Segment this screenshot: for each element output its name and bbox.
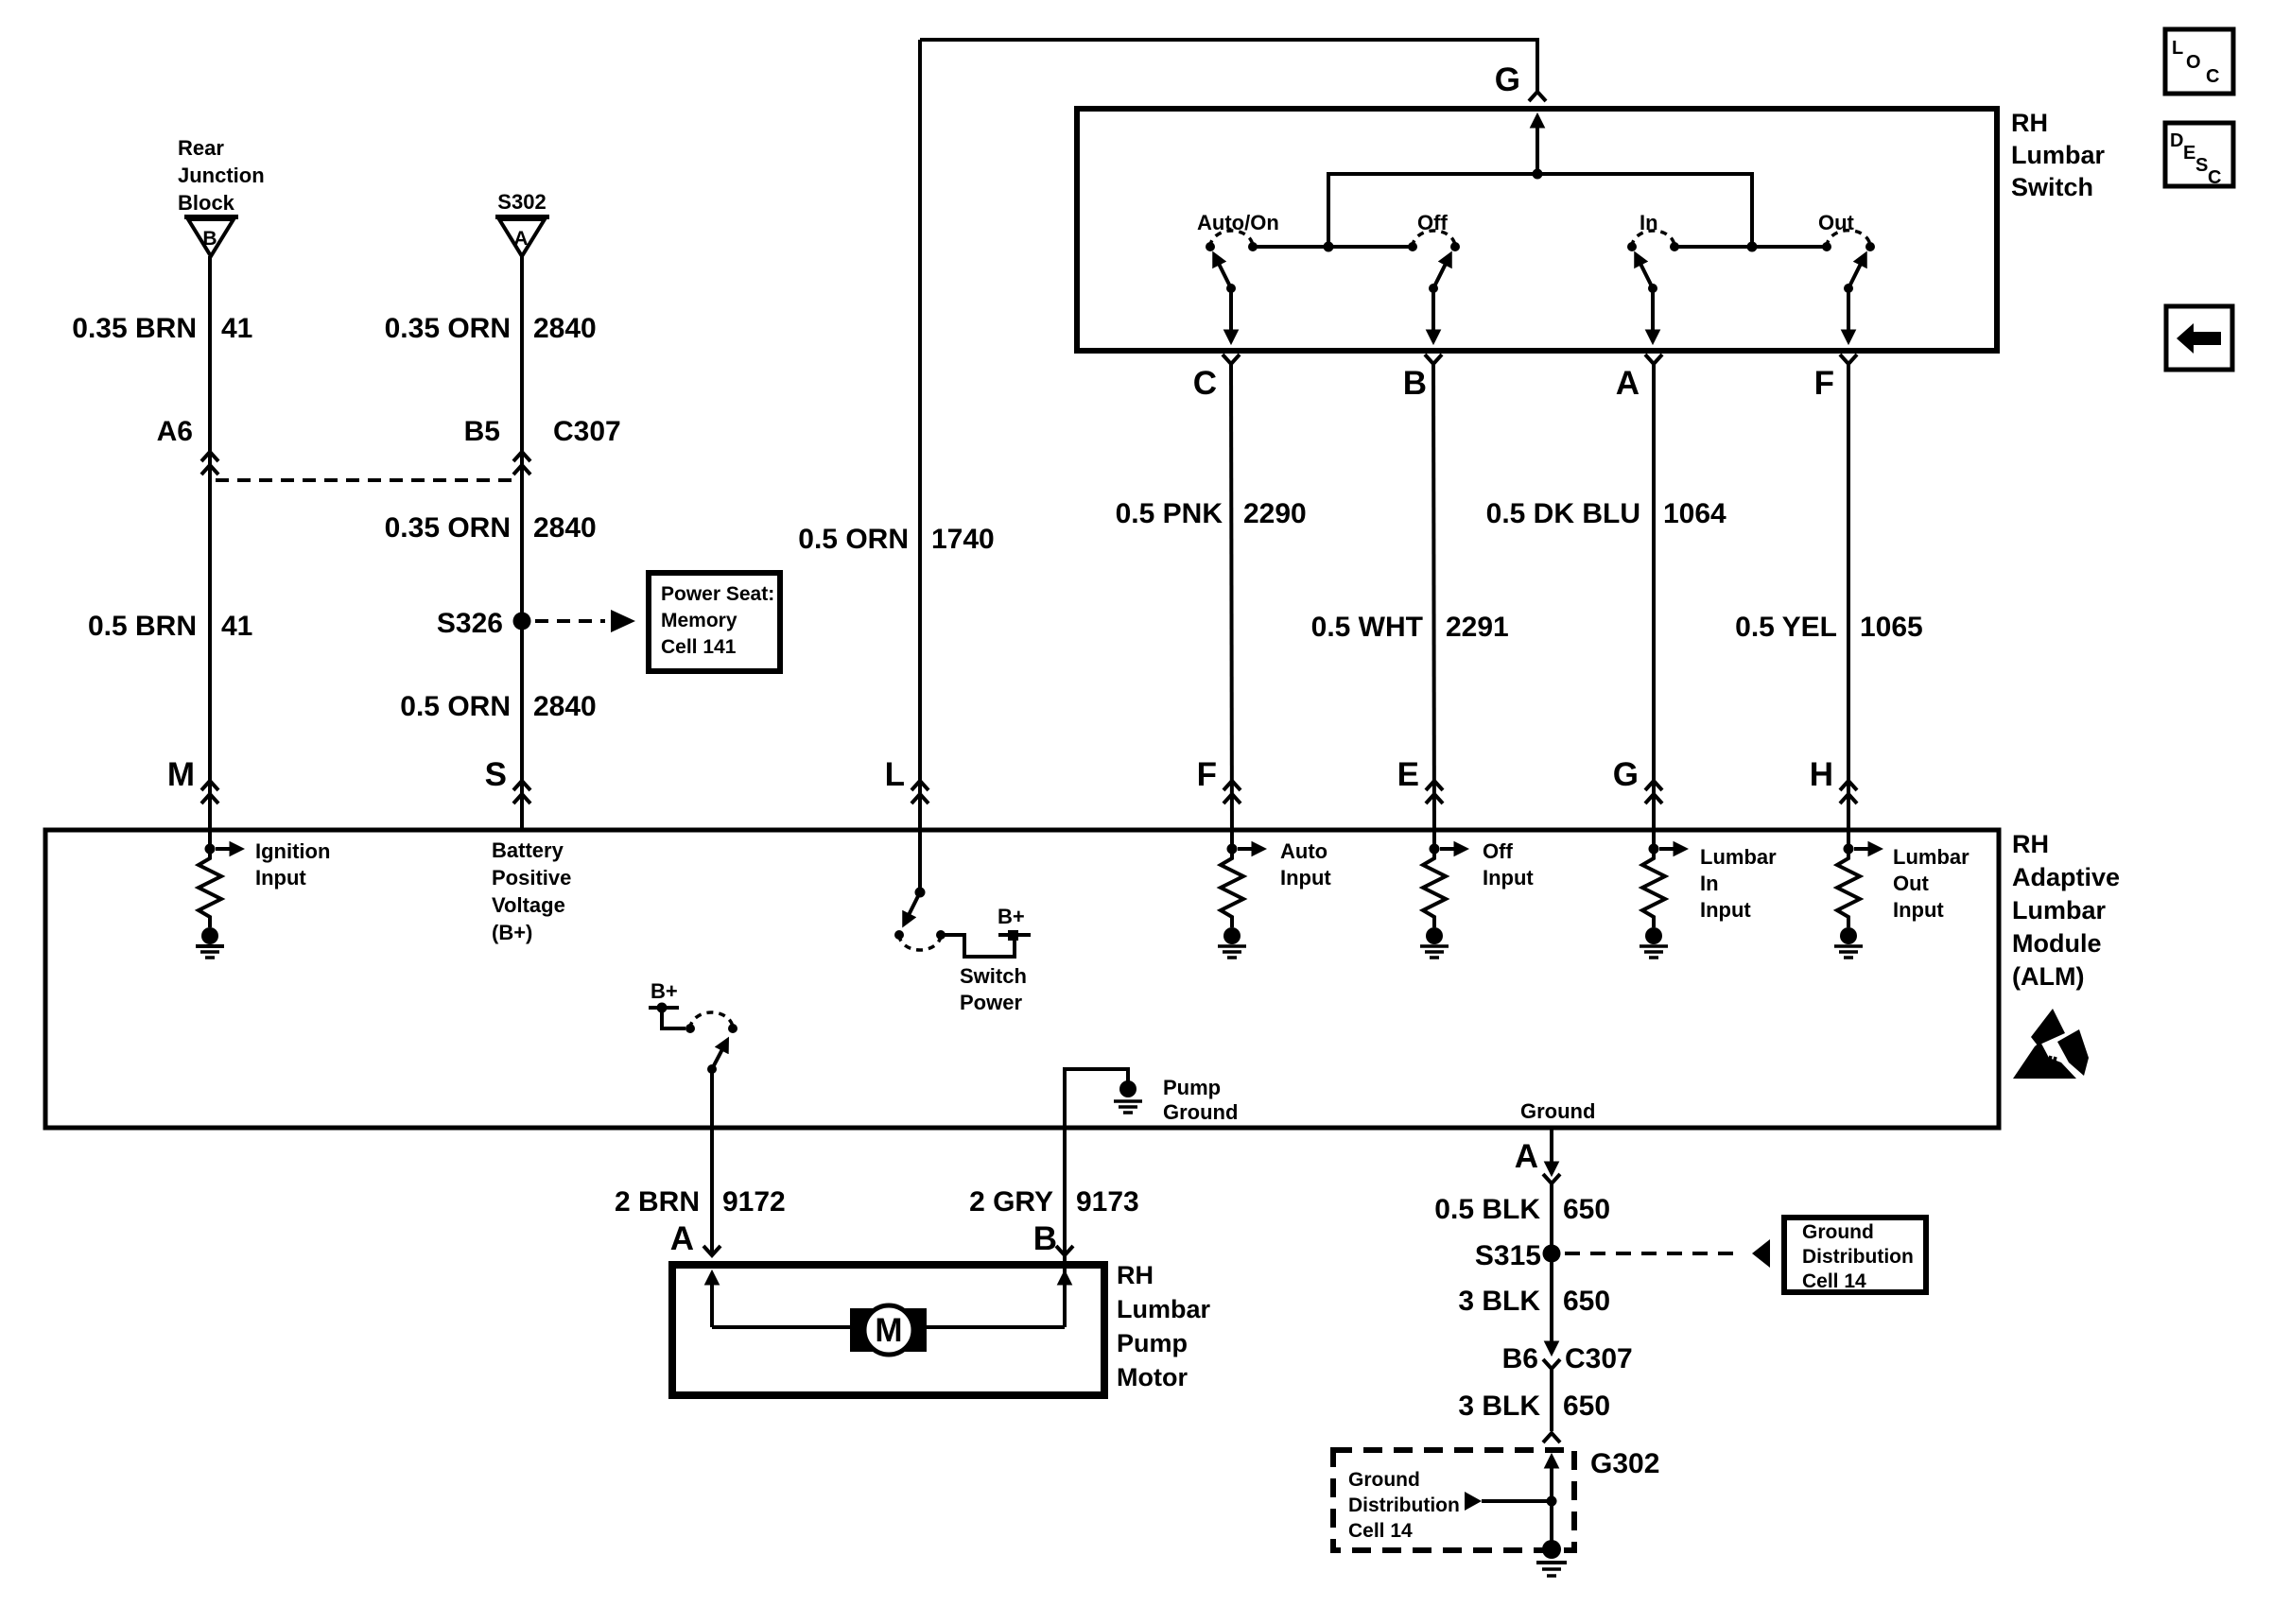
wire pump A entry arrow <box>710 1284 714 1327</box>
svg-text:Pump: Pump <box>1163 1076 1221 1099</box>
wire 0.5 DK BLU 1064 (A to G) <box>1652 362 1656 849</box>
svg-text:0.5 ORN: 0.5 ORN <box>798 524 909 555</box>
svg-text:C: C <box>2206 66 2219 87</box>
svg-text:2840: 2840 <box>533 512 597 544</box>
pin A (pump motor) <box>670 1220 720 1257</box>
svg-text:F: F <box>1814 365 1834 402</box>
node bus junction <box>1533 169 1543 180</box>
svg-text:Ignition: Ignition <box>255 839 330 863</box>
svg-text:S: S <box>2195 155 2208 176</box>
svg-text:Motor: Motor <box>1117 1363 1188 1391</box>
label Pump Ground <box>1163 1076 1238 1124</box>
svg-text:L: L <box>885 756 905 793</box>
svg-text:Voltage: Voltage <box>492 893 565 917</box>
box RH Lumbar Pump Motor <box>672 1265 1104 1395</box>
wire G entry arrow inside switch box <box>1536 127 1539 174</box>
wire B+ to pump relay contact <box>662 1008 685 1028</box>
connector triangle A (S302) <box>495 215 549 256</box>
svg-text:3 BLK: 3 BLK <box>1458 1391 1540 1422</box>
wire dashed S315 to Ground Distribution <box>1565 1239 1770 1268</box>
ground off input <box>1420 927 1449 958</box>
resistor auto input <box>1221 849 1243 927</box>
svg-text:0.5 WHT: 0.5 WHT <box>1311 612 1423 643</box>
svg-text:Lumbar: Lumbar <box>2012 896 2107 924</box>
svg-text:Battery: Battery <box>492 838 564 862</box>
svg-text:M: M <box>167 756 195 793</box>
svg-text:B6: B6 <box>1502 1343 1538 1374</box>
svg-text:Junction: Junction <box>178 164 265 187</box>
svg-text:B: B <box>1033 1220 1057 1257</box>
node lumbar in junction <box>1649 844 1659 855</box>
svg-text:B5: B5 <box>464 416 500 447</box>
resistor off input <box>1423 849 1446 927</box>
svg-text:Ground: Ground <box>1520 1099 1595 1123</box>
svg-text:C: C <box>1193 365 1217 402</box>
svg-text:B: B <box>1403 365 1427 402</box>
svg-text:1064: 1064 <box>1663 498 1726 529</box>
svg-text:Cell 141: Cell 141 <box>661 636 737 658</box>
wire 0.35/0.5 BRN 41 (left vertical) <box>208 256 212 849</box>
node off input junction <box>1430 844 1440 855</box>
svg-text:(ALM): (ALM) <box>2012 962 2084 991</box>
box DESC <box>2165 123 2233 188</box>
wire auto input arrow <box>1238 847 1253 851</box>
svg-text:A: A <box>513 228 528 250</box>
switch Auto/On <box>1197 211 1279 331</box>
pin M (ALM ignition input) <box>167 756 218 803</box>
svg-text:Distribution: Distribution <box>1348 1494 1460 1516</box>
pin A (switch in output) <box>1616 354 1662 402</box>
svg-text:Input: Input <box>1700 898 1751 922</box>
wire top horizontal to G <box>920 40 1537 91</box>
connector triangle B (Rear Junction Block) <box>184 215 238 256</box>
svg-text:F: F <box>1197 756 1217 793</box>
wire lumbar in arrow <box>1659 847 1674 851</box>
pin G (ALM lumbar in input) <box>1613 756 1662 803</box>
svg-text:Block: Block <box>178 191 235 215</box>
svg-text:Adaptive: Adaptive <box>2012 863 2120 891</box>
node auto input junction <box>1227 844 1238 855</box>
wire 3 BLK 650 (to G302) <box>1550 1369 1553 1431</box>
wire 0.5 PNK 2290 (C to F) <box>1231 362 1232 849</box>
power feed B+ (pump relay) <box>649 979 679 1013</box>
wire label 0.5 WHT 2291 <box>1311 612 1509 643</box>
svg-text:650: 650 <box>1563 1391 1610 1422</box>
svg-text:C307: C307 <box>553 416 621 447</box>
resistor ignition input <box>199 849 221 927</box>
svg-text:Out: Out <box>1893 872 1930 895</box>
svg-text:C307: C307 <box>1565 1343 1633 1374</box>
label Off Input <box>1483 839 1534 890</box>
ground auto input <box>1218 927 1246 958</box>
svg-text:Power Seat:: Power Seat: <box>661 583 774 605</box>
pin L (ALM switch power) <box>885 756 928 803</box>
svg-text:B+: B+ <box>651 979 678 1003</box>
svg-text:Ground: Ground <box>1348 1469 1420 1491</box>
svg-text:Auto/On: Auto/On <box>1197 211 1279 234</box>
power feed B+ (switch power) <box>998 905 1031 941</box>
switch power relay contact <box>894 888 946 951</box>
wire 0.35/0.5 ORN 2840 (second vertical) <box>520 256 524 830</box>
connector A6 (in-line chevrons on BRN wire) <box>157 416 218 475</box>
wire label 0.5 PNK 2290 <box>1116 498 1307 529</box>
svg-text:Off: Off <box>1483 839 1513 863</box>
svg-text:G302: G302 <box>1590 1448 1659 1479</box>
svg-text:S326: S326 <box>437 608 503 639</box>
svg-text:Input: Input <box>255 866 306 890</box>
wire label 3 BLK 650 <box>1458 1286 1610 1317</box>
ground lumbar in <box>1640 927 1668 958</box>
ground ignition <box>196 927 224 958</box>
svg-text:A: A <box>1616 365 1640 402</box>
pin S (ALM battery input) <box>485 756 530 803</box>
svg-text:E: E <box>2183 143 2195 164</box>
wire motor loop <box>712 1325 1065 1329</box>
pin B (switch off output) <box>1403 354 1442 402</box>
node lumbar out junction <box>1844 844 1854 855</box>
svg-text:650: 650 <box>1563 1194 1610 1225</box>
wire label 2 GRY 9173 <box>969 1186 1139 1218</box>
svg-text:2291: 2291 <box>1446 612 1509 643</box>
svg-text:0.5 BRN: 0.5 BRN <box>88 611 197 642</box>
wire label 0.35 BRN 41 <box>72 313 252 344</box>
svg-text:E: E <box>1397 756 1419 793</box>
svg-text:S: S <box>485 756 507 793</box>
wire 2 BRN 9172 (pump A) <box>710 1069 714 1255</box>
svg-text:G: G <box>1495 61 1520 98</box>
svg-text:Lumbar: Lumbar <box>2011 141 2106 169</box>
svg-text:Module: Module <box>2012 929 2102 958</box>
wire switch common bus <box>1328 174 1752 247</box>
svg-text:Switch: Switch <box>2011 173 2093 201</box>
wire label 0.5 DK BLU 1064 <box>1486 498 1726 529</box>
wire 0.5 ORN 1740 (L vertical) <box>918 40 922 892</box>
connector B5 C307 (in-line chevrons on ORN wire) <box>464 416 621 475</box>
svg-text:RH: RH <box>1117 1261 1154 1289</box>
node row junction left <box>1324 242 1334 252</box>
wire G302 entry arrow <box>1550 1467 1553 1501</box>
svg-text:(B+): (B+) <box>492 921 532 944</box>
label Switch Power <box>960 964 1027 1014</box>
wire label 0.5 ORN 2840 <box>400 691 596 722</box>
svg-text:A: A <box>1515 1138 1538 1175</box>
connector chevron at G302 <box>1543 1433 1560 1443</box>
svg-text:2 GRY: 2 GRY <box>969 1186 1053 1218</box>
wire off input arrow <box>1440 847 1455 851</box>
wire dashed tie A6-B5 <box>216 478 516 482</box>
pin H (ALM lumbar out input) <box>1810 756 1857 803</box>
label RH Adaptive Lumbar Module (ALM) <box>2012 830 2120 991</box>
svg-text:Cell 14: Cell 14 <box>1802 1270 1866 1292</box>
svg-text:Rear: Rear <box>178 136 224 160</box>
svg-text:Distribution: Distribution <box>1802 1246 1914 1268</box>
wire Auto/On to Off row <box>1253 245 1413 249</box>
svg-text:Input: Input <box>1893 898 1944 922</box>
label Lumbar Out Input <box>1893 845 1969 922</box>
svg-text:0.35 ORN: 0.35 ORN <box>385 313 511 344</box>
svg-text:B: B <box>202 228 217 250</box>
svg-text:9172: 9172 <box>722 1186 786 1218</box>
svg-text:41: 41 <box>221 313 252 344</box>
svg-text:650: 650 <box>1563 1286 1610 1317</box>
box RH Lumbar Switch <box>1077 109 1997 351</box>
wire label 0.5 ORN 1740 <box>798 524 994 555</box>
wire label 0.35 ORN 2840 <box>385 313 597 344</box>
wire dashed arrow S326 to Power Seat Memory <box>535 610 635 632</box>
switch In <box>1627 211 1679 331</box>
svg-text:Auto: Auto <box>1280 839 1327 863</box>
wire lumbar out arrow <box>1854 847 1869 851</box>
node G302 junction <box>1547 1496 1557 1507</box>
svg-text:H: H <box>1810 756 1833 793</box>
label Battery Positive Voltage (B+) <box>492 838 571 944</box>
svg-text:0.5 BLK: 0.5 BLK <box>1434 1194 1540 1225</box>
ESD sensitive symbol <box>2013 1009 2089 1079</box>
switch Out <box>1818 211 1875 331</box>
wire 0.5 WHT 2291 (B to E) <box>1433 362 1434 849</box>
wire to G302 ground <box>1550 1501 1553 1543</box>
svg-text:0.35 ORN: 0.35 ORN <box>385 512 511 544</box>
svg-text:A6: A6 <box>157 416 193 447</box>
wire label 0.5 BRN 41 <box>88 611 252 642</box>
svg-text:Memory: Memory <box>661 610 737 631</box>
connector B6 C307 <box>1502 1343 1633 1374</box>
svg-text:Power: Power <box>960 991 1022 1014</box>
pin A (ALM ground output) <box>1515 1129 1560 1183</box>
svg-text:Ground: Ground <box>1163 1100 1238 1124</box>
box RH Adaptive Lumbar Module (ALM) <box>45 830 1999 1128</box>
svg-text:In: In <box>1700 872 1719 895</box>
svg-text:M: M <box>875 1312 902 1349</box>
svg-text:1065: 1065 <box>1860 612 1923 643</box>
svg-text:L: L <box>2172 38 2183 59</box>
svg-text:Input: Input <box>1483 866 1534 890</box>
box Power Seat: Memory Cell 141 <box>649 573 780 671</box>
motor M (pump) <box>850 1305 927 1355</box>
box Ground Distribution Cell 14 <box>1784 1218 1926 1292</box>
svg-text:Cell 14: Cell 14 <box>1348 1520 1413 1542</box>
pin E (ALM off input) <box>1397 756 1443 803</box>
svg-text:1740: 1740 <box>931 524 995 555</box>
svg-text:B+: B+ <box>998 905 1025 928</box>
svg-text:Pump: Pump <box>1117 1329 1188 1357</box>
wire ground distribution tap <box>1465 1492 1552 1511</box>
svg-text:0.5 YEL: 0.5 YEL <box>1735 612 1837 643</box>
wire 0.5 YEL 1065 (F to H) <box>1847 362 1850 849</box>
wire 0.5 BLK 650 <box>1550 1183 1553 1342</box>
wire switch power to B+ <box>941 935 1015 957</box>
resistor lumbar in input <box>1642 849 1665 927</box>
splice S326 <box>437 608 531 639</box>
ground G302 <box>1536 1540 1567 1576</box>
switch Off <box>1408 211 1460 331</box>
svg-text:9173: 9173 <box>1076 1186 1139 1218</box>
wire label 3 BLK 650 (lower) <box>1458 1391 1610 1422</box>
wire pump B entry arrow <box>1063 1284 1067 1327</box>
svg-text:2840: 2840 <box>533 691 597 722</box>
pin B (pump motor) <box>1033 1220 1073 1257</box>
wire label 2 BRN 9172 <box>615 1186 786 1218</box>
node ignition junction <box>205 844 216 855</box>
box back arrow <box>2166 306 2232 370</box>
svg-text:2840: 2840 <box>533 313 597 344</box>
svg-text:2 BRN: 2 BRN <box>615 1186 700 1218</box>
svg-text:Lumbar: Lumbar <box>1117 1295 1211 1323</box>
resistor lumbar out input <box>1837 849 1860 927</box>
wire label 0.35 ORN 2840 (below C307) <box>385 512 597 544</box>
label RH Lumbar Switch <box>2011 109 2106 201</box>
pin G (switch common) <box>1495 61 1546 101</box>
svg-text:C: C <box>2208 167 2221 188</box>
pin F (ALM auto input) <box>1197 756 1241 803</box>
svg-text:2290: 2290 <box>1243 498 1307 529</box>
svg-text:Positive: Positive <box>492 866 571 890</box>
svg-text:O: O <box>2186 52 2201 73</box>
svg-text:0.5 PNK: 0.5 PNK <box>1116 498 1223 529</box>
svg-text:0.5 ORN: 0.5 ORN <box>400 691 511 722</box>
svg-text:Lumbar: Lumbar <box>1700 845 1777 869</box>
svg-text:3 BLK: 3 BLK <box>1458 1286 1540 1317</box>
svg-text:G: G <box>1613 756 1639 793</box>
svg-text:Ground: Ground <box>1802 1221 1874 1243</box>
svg-text:RH: RH <box>2012 830 2049 858</box>
box LOC <box>2165 29 2233 94</box>
svg-text:RH: RH <box>2011 109 2048 137</box>
label Lumbar In Input <box>1700 845 1777 922</box>
wire In to Out row <box>1674 245 1827 249</box>
label Rear Junction Block <box>178 136 265 215</box>
wire pump ground <box>1065 1069 1128 1327</box>
box ground distribution G302 (dashed) <box>1333 1450 1574 1550</box>
svg-text:A: A <box>670 1220 694 1257</box>
splice S315 <box>1475 1240 1561 1271</box>
wire label 0.5 BLK 650 <box>1434 1194 1610 1225</box>
label Auto Input <box>1280 839 1331 890</box>
ground pump <box>1114 1080 1142 1113</box>
svg-text:0.5 DK BLU: 0.5 DK BLU <box>1486 498 1640 529</box>
wire label 0.5 YEL 1065 <box>1735 612 1923 643</box>
svg-text:Lumbar: Lumbar <box>1893 845 1969 869</box>
svg-text:S302: S302 <box>497 190 546 214</box>
label Ignition Input <box>255 839 330 890</box>
svg-text:Switch: Switch <box>960 964 1027 988</box>
wire ignition arrow <box>216 847 231 851</box>
label RH Lumbar Pump Motor <box>1117 1261 1211 1391</box>
svg-text:Input: Input <box>1280 866 1331 890</box>
svg-text:D: D <box>2170 130 2183 151</box>
svg-text:0.35 BRN: 0.35 BRN <box>72 313 197 344</box>
svg-text:S315: S315 <box>1475 1240 1541 1271</box>
svg-text:41: 41 <box>221 611 252 642</box>
label Ground Distribution Cell 14 (dashed box) <box>1348 1469 1460 1542</box>
pin C (switch auto output) <box>1193 354 1240 402</box>
node row junction right <box>1747 242 1758 252</box>
pin F (switch out output) <box>1814 354 1857 402</box>
pump relay contact <box>685 1012 737 1074</box>
ground lumbar out <box>1834 927 1863 958</box>
